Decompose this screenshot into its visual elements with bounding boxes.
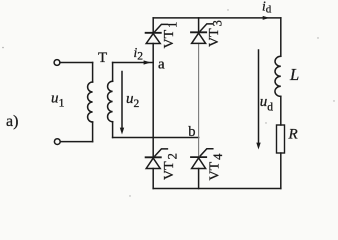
svg-text:a: a bbox=[158, 57, 165, 73]
arrowhead i2 bbox=[144, 60, 151, 64]
thyristor VT3 bbox=[191, 24, 213, 44]
wire middle column below VT4 bbox=[198, 169, 200, 189]
wire primary top bbox=[60, 62, 93, 64]
wire left column VT1 to VT2 through node a bbox=[152, 44, 154, 158]
wire secondary top vertical bbox=[112, 63, 114, 82]
wire middle column VT3 to VT4 through node b bbox=[198, 43, 200, 157]
resistor R bbox=[277, 125, 285, 153]
svg-text:u1: u1 bbox=[51, 91, 65, 110]
svg-text:b: b bbox=[188, 124, 195, 140]
arrowhead id bbox=[263, 16, 270, 20]
wire bridge bottom rail bbox=[153, 188, 281, 190]
arrowhead u2 bbox=[120, 128, 124, 135]
svg-text:R: R bbox=[288, 127, 298, 143]
wire primary bottom bbox=[60, 141, 92, 143]
svg-text:u2: u2 bbox=[126, 91, 140, 110]
svg-text:id: id bbox=[262, 0, 272, 15]
inductor L bbox=[275, 56, 281, 96]
wire primary left vertical top bbox=[92, 63, 94, 83]
thyristor VT1 bbox=[146, 24, 168, 43]
svg-text:i2: i2 bbox=[134, 45, 144, 63]
wire middle column above VT3 bbox=[198, 18, 200, 32]
terminal bottom-left bbox=[54, 139, 60, 145]
wire secondary bottom to node b bbox=[113, 137, 199, 139]
wire left column below VT2 bbox=[152, 169, 154, 189]
thyristor VT4 bbox=[191, 149, 213, 169]
wire right column top bbox=[280, 18, 282, 56]
svg-text:VT3: VT3 bbox=[207, 20, 225, 47]
terminal top-left bbox=[54, 60, 60, 66]
svg-text:VT2: VT2 bbox=[162, 153, 180, 180]
wire secondary bottom vertical bbox=[112, 122, 114, 138]
svg-text:L: L bbox=[289, 65, 299, 84]
wire L to R bbox=[280, 96, 282, 125]
svg-text:ud: ud bbox=[260, 94, 274, 113]
svg-text:a): a) bbox=[6, 113, 18, 130]
svg-text:VT1: VT1 bbox=[162, 22, 180, 49]
arrow u2 bbox=[121, 72, 123, 129]
wire secondary top to node a bbox=[113, 62, 154, 64]
svg-text:T: T bbox=[98, 50, 107, 66]
svg-text:VT4: VT4 bbox=[208, 153, 226, 181]
arrowhead ud bbox=[256, 143, 260, 150]
wire below R bbox=[280, 153, 282, 189]
arrow ud bbox=[258, 50, 260, 143]
wire bridge top rail bbox=[153, 17, 281, 19]
wire primary bottom vertical bbox=[92, 122, 94, 142]
wire left column above VT1 bbox=[152, 18, 154, 33]
thyristor VT2 bbox=[146, 149, 168, 169]
transformer T primary winding bbox=[88, 82, 93, 122]
transformer T secondary winding bbox=[108, 81, 113, 121]
